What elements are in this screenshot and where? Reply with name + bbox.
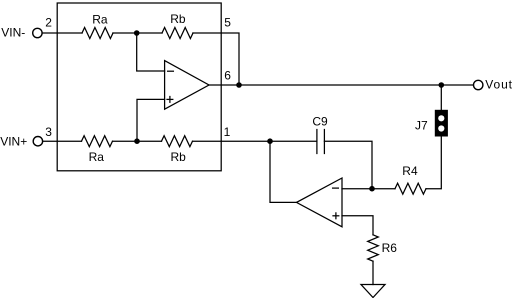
svg-text:VIN+: VIN+ — [0, 134, 27, 148]
wire U2 minus input — [342, 188, 372, 190]
resistor Rb top — [162, 28, 193, 39]
jumper J7 — [435, 110, 448, 137]
svg-text:Ra: Ra — [92, 12, 108, 26]
wire Ra to Rb top — [113, 32, 162, 34]
wire op-amp U1 output to Vout — [209, 84, 473, 86]
ground — [361, 285, 385, 298]
resistor Ra top — [82, 28, 113, 39]
svg-text:Rb: Rb — [170, 12, 186, 26]
junction dot pin1/C9/feedback — [267, 138, 273, 144]
svg-text:C9: C9 — [312, 114, 328, 128]
svg-text:Vout: Vout — [485, 78, 513, 92]
resistor Ra bottom — [82, 136, 113, 147]
svg-text:3: 3 — [45, 125, 52, 139]
op-amp U1 minus glyph — [168, 70, 174, 72]
svg-text:R4: R4 — [402, 164, 418, 178]
junction dot top Ra/Rb — [134, 30, 140, 36]
op-amp U2 (mirrored, points left) — [297, 178, 343, 227]
wire junction to op-amp minus input — [137, 33, 165, 71]
svg-text:Ra: Ra — [89, 150, 105, 164]
terminal Vout — [474, 80, 483, 89]
wire minus node to R4 — [372, 188, 395, 190]
svg-text:6: 6 — [224, 68, 231, 82]
wire U2 output feedback — [270, 141, 297, 202]
wire VIN+ to Ra bottom — [43, 140, 82, 142]
resistor R6 (vertical) — [368, 235, 379, 261]
resistor Rb bottom — [162, 136, 193, 147]
svg-text:VIN-: VIN- — [1, 25, 25, 39]
capacitor C9 — [316, 130, 318, 154]
resistor R4 — [395, 183, 426, 194]
junction dot pin5/output — [236, 82, 242, 88]
svg-text:5: 5 — [224, 16, 231, 30]
wire R6 to ground — [372, 261, 374, 284]
op-amp U1 plus glyph — [167, 98, 173, 100]
wire junction to op-amp plus input — [137, 99, 165, 141]
wire Ra to Rb bottom — [113, 140, 162, 142]
junction dot output/J7 — [439, 82, 445, 88]
svg-text:1: 1 — [224, 125, 231, 139]
svg-text:J7: J7 — [415, 118, 428, 132]
op-amp U2 minus glyph — [333, 187, 339, 189]
terminal VIN+ — [33, 137, 42, 146]
junction dot minus node — [369, 186, 375, 192]
wire U2 plus input to R6 — [342, 216, 373, 235]
wire pin 5 down to output net — [221, 33, 239, 85]
wire J7 to output net — [440, 85, 442, 110]
wire VIN- to Ra — [42, 32, 82, 34]
wire C9 right plate to minus node — [324, 141, 372, 189]
wire node to C9 left plate — [270, 140, 317, 142]
op-amp U1 — [165, 61, 209, 110]
op-amp U2 plus glyph — [333, 215, 339, 217]
junction dot bottom Ra/Rb — [134, 138, 140, 144]
wire Rb to pin 5 — [193, 32, 221, 34]
svg-text:2: 2 — [45, 16, 52, 30]
IC boundary box — [57, 3, 221, 171]
wire pin 1 to C9 node — [221, 140, 270, 142]
svg-text:Rb: Rb — [171, 150, 187, 164]
svg-text:R6: R6 — [382, 241, 398, 255]
wire R4 to J7 — [426, 137, 441, 189]
terminal VIN- — [33, 28, 42, 37]
wire Rb to pin 1 — [193, 140, 222, 142]
